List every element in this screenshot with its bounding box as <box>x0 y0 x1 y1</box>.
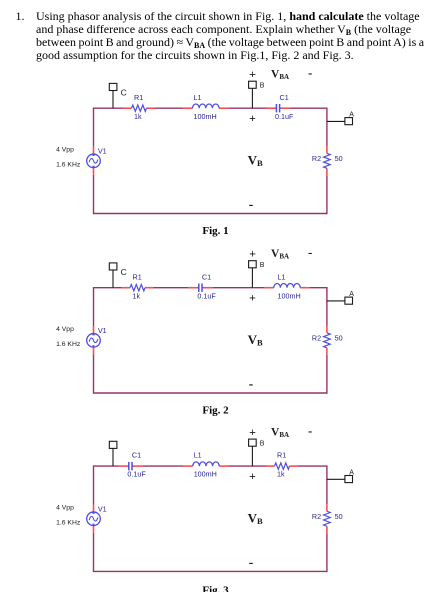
wire left (upper) <box>93 465 95 504</box>
wire right (upper) <box>326 465 328 504</box>
svg-text:1k: 1k <box>277 470 285 479</box>
wire top segment <box>94 107 124 109</box>
svg-text:A: A <box>349 111 354 118</box>
svg-text:4 Vpp: 4 Vpp <box>56 505 74 512</box>
svg-text:1.6 KHz: 1.6 KHz <box>56 162 81 169</box>
wire top segment <box>94 465 119 467</box>
terminal C <box>109 441 117 466</box>
svg-text:VB: VB <box>248 152 263 168</box>
resistor R2 <box>324 326 331 355</box>
wire top segment <box>228 107 266 109</box>
svg-text:100mH: 100mH <box>194 470 217 479</box>
svg-text:100mH: 100mH <box>278 291 301 300</box>
voltage source V1 <box>87 505 101 533</box>
inductor L1 <box>265 284 310 288</box>
svg-text:C1: C1 <box>132 451 141 460</box>
svg-text:Fig. 1: Fig. 1 <box>202 225 228 237</box>
svg-text:+: + <box>249 469 256 483</box>
svg-text:+: + <box>249 291 256 305</box>
wire bottom <box>94 392 327 394</box>
capacitor C1 <box>118 462 142 470</box>
resistor R1 <box>123 105 155 111</box>
wire top segment <box>154 287 189 289</box>
svg-text:50: 50 <box>335 154 343 163</box>
svg-text:-: - <box>308 423 312 438</box>
svg-text:4 Vpp: 4 Vpp <box>56 147 74 154</box>
svg-text:+: + <box>249 247 256 261</box>
wire top segment <box>155 107 183 109</box>
wire bottom <box>94 570 327 572</box>
node A <box>327 297 353 304</box>
svg-text:B: B <box>260 262 265 269</box>
problem number <box>16 10 25 23</box>
wire right (upper) <box>326 287 328 326</box>
svg-text:1k: 1k <box>133 291 141 300</box>
wire right (lower) <box>326 175 328 214</box>
wire top segment <box>290 107 327 109</box>
wire right (lower) <box>326 355 328 394</box>
wire top segment <box>94 287 122 289</box>
wire bottom <box>94 213 327 215</box>
voltage source V1 <box>87 326 101 354</box>
wire right (lower) <box>326 533 328 572</box>
svg-text:V1: V1 <box>98 504 107 513</box>
resistor R1 <box>266 463 298 469</box>
svg-text:-: - <box>308 65 312 80</box>
wire top segment <box>228 465 266 467</box>
svg-text:R2: R2 <box>312 512 321 521</box>
capacitor C1 <box>188 284 212 292</box>
svg-text:1.6 KHz: 1.6 KHz <box>56 520 81 527</box>
terminal C <box>109 263 117 288</box>
svg-text:0.1uF: 0.1uF <box>127 470 146 479</box>
wire top segment <box>212 287 264 289</box>
svg-text:A: A <box>349 469 354 476</box>
svg-text:L1: L1 <box>278 272 286 281</box>
resistor R2 <box>324 146 331 175</box>
svg-text:R1: R1 <box>277 451 286 460</box>
svg-text:-: - <box>249 197 254 212</box>
svg-text:R1: R1 <box>133 272 142 281</box>
svg-text:R2: R2 <box>312 154 321 163</box>
svg-text:+: + <box>249 67 256 81</box>
wire left (lower) <box>93 354 95 393</box>
wire top segment <box>298 465 327 467</box>
svg-text:C: C <box>121 267 127 277</box>
terminal C <box>109 83 117 108</box>
svg-text:50: 50 <box>335 512 343 521</box>
inductor L1 <box>184 462 229 466</box>
wire left (upper) <box>93 287 95 326</box>
svg-text:V1: V1 <box>98 146 107 155</box>
svg-text:C: C <box>121 88 127 98</box>
svg-text:R1: R1 <box>134 93 143 102</box>
svg-text:VBA: VBA <box>271 248 289 261</box>
resistor R1 <box>122 285 154 291</box>
resistor R2 <box>324 504 331 533</box>
svg-text:100mH: 100mH <box>194 112 217 121</box>
node A <box>327 476 353 483</box>
svg-text:C1: C1 <box>202 272 211 281</box>
svg-text:Fig. 3: Fig. 3 <box>202 584 229 592</box>
wire left (lower) <box>93 175 95 214</box>
svg-text:-: - <box>249 555 254 570</box>
svg-text:+: + <box>249 111 256 125</box>
inductor L1 <box>183 104 228 108</box>
svg-text:-: - <box>308 245 312 260</box>
wire top segment <box>142 465 183 467</box>
voltage source V1 <box>87 147 101 175</box>
svg-text:A: A <box>349 291 354 298</box>
terminal B <box>249 439 257 466</box>
svg-text:R2: R2 <box>312 334 321 343</box>
svg-text:0.1uF: 0.1uF <box>197 291 216 300</box>
terminal B <box>249 81 257 108</box>
wire top segment <box>309 287 327 289</box>
svg-text:Fig. 2: Fig. 2 <box>202 405 229 417</box>
svg-text:VB: VB <box>248 332 263 348</box>
svg-text:-: - <box>249 376 254 391</box>
wire left (lower) <box>93 533 95 572</box>
problem statement text <box>36 10 424 62</box>
svg-text:B: B <box>260 441 265 448</box>
svg-text:+: + <box>249 425 256 439</box>
svg-text:L1: L1 <box>194 93 202 102</box>
node A <box>327 118 353 125</box>
svg-text:VBA: VBA <box>271 68 289 81</box>
svg-text:VBA: VBA <box>271 426 289 439</box>
svg-text:B: B <box>260 83 265 90</box>
svg-text:L1: L1 <box>194 451 202 460</box>
svg-text:VB: VB <box>248 510 263 526</box>
svg-text:V1: V1 <box>98 326 107 335</box>
svg-text:1.6 KHz: 1.6 KHz <box>56 341 81 348</box>
wire left (upper) <box>93 108 95 147</box>
svg-text:0.1uF: 0.1uF <box>275 112 294 121</box>
capacitor C1 <box>266 104 290 112</box>
svg-text:50: 50 <box>335 334 343 343</box>
svg-text:C1: C1 <box>280 93 289 102</box>
svg-text:1k: 1k <box>134 112 142 121</box>
svg-text:4 Vpp: 4 Vpp <box>56 326 74 333</box>
wire right (upper) <box>326 108 328 147</box>
terminal B <box>249 261 257 288</box>
